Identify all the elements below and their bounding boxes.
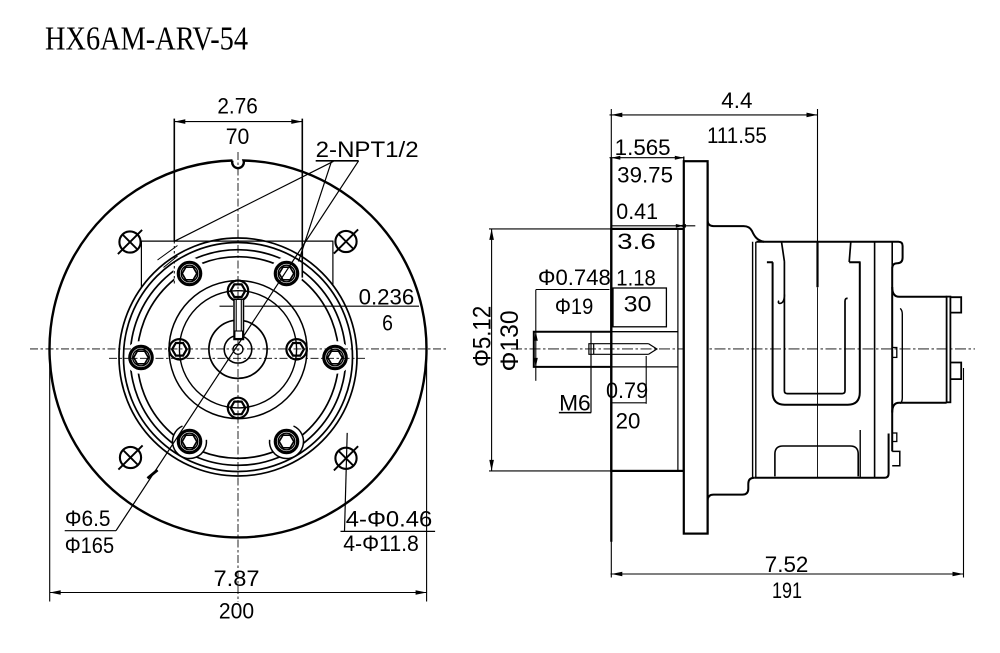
rear cap plate [947, 297, 951, 403]
svg-text:6: 6 [382, 310, 393, 335]
neck top edge [708, 164, 764, 242]
shaft phi19 [534, 332, 612, 367]
chamber left hook [778, 295, 784, 304]
M6 underline [559, 412, 591, 414]
svg-text:0.41: 0.41 [616, 199, 658, 224]
outer flange circle D200 with top notch [49, 161, 426, 538]
svg-text:Φ19: Φ19 [555, 294, 593, 319]
svg-text:200: 200 [219, 599, 254, 624]
band circle inner [137, 257, 339, 459]
shaft bore lines [611, 331, 678, 333]
inner flange double ring outer [119, 238, 357, 476]
NPT label underline [316, 160, 359, 162]
hex bolt B2 [275, 262, 297, 284]
neck bottom edge [708, 478, 755, 534]
shallow leader dashes [158, 246, 178, 261]
svg-text:4-Φ11.8: 4-Φ11.8 [343, 531, 419, 556]
keyway slot outer [234, 299, 244, 339]
bolt lobe 2 [270, 257, 303, 290]
svg-text:39.75: 39.75 [617, 163, 673, 188]
svg-text:0.236: 0.236 [359, 285, 415, 310]
dim 2.76/70 line [174, 121, 302, 123]
port plug P2 [286, 339, 306, 359]
mid body bottom edge [754, 434, 888, 478]
svg-text:HX6AM-ARV-54: HX6AM-ARV-54 [45, 20, 248, 57]
inner flange double ring inner [124, 243, 353, 472]
cone bottom edge [892, 403, 946, 413]
left view horizontal center line [30, 348, 447, 350]
hex bolt B3 [178, 262, 200, 284]
phi19 dim line [535, 290, 537, 381]
svg-text:2-NPT1/2: 2-NPT1/2 [316, 137, 419, 162]
keyway key [235, 331, 243, 339]
dim 7.52 ext right [963, 368, 965, 578]
chamber lean line right [849, 242, 851, 262]
svg-text:M6: M6 [559, 390, 591, 415]
svg-text:Φ5.12: Φ5.12 [468, 306, 496, 367]
svg-text:30: 30 [624, 291, 652, 316]
bolt lobe 1 [319, 341, 352, 374]
svg-text:70: 70 [226, 124, 250, 149]
phi130 top ext [489, 228, 611, 230]
band circle outer [130, 250, 346, 466]
svg-text:20: 20 [616, 409, 641, 434]
svg-text:191: 191 [772, 578, 802, 603]
port plug P3 [228, 398, 248, 418]
body square outline [141, 241, 333, 287]
chamber outer wall [767, 262, 861, 404]
phi5.12 phi130 dim line [491, 229, 493, 471]
M6 leader [590, 332, 592, 413]
small-hex bolt circle [179, 291, 296, 408]
svg-text:3.6: 3.6 [617, 229, 656, 254]
mounting hole X2 [334, 229, 358, 253]
hex bolt B1 [324, 346, 346, 368]
hex bolt B4 [130, 346, 152, 368]
dim 2.76/70 extension line right [301, 119, 303, 278]
phi0.748/phi19 bar [536, 289, 610, 291]
center hole [233, 344, 243, 354]
0.79/20 bar [611, 402, 646, 404]
chamber bore inner wall [784, 262, 847, 394]
hub circle [209, 320, 267, 378]
phi6.5/phi165 fraction bar [65, 530, 116, 532]
flange disk phi200 [684, 161, 708, 533]
mid body left joint lines [752, 242, 754, 478]
hex bolt B5 [178, 430, 200, 452]
keyway width dim line 0.236/6 [220, 305, 234, 307]
end section inner lines [859, 430, 861, 477]
dim 7.87/200 ext right [426, 352, 428, 602]
rear lower slot [892, 433, 897, 442]
svg-text:111.55: 111.55 [707, 123, 767, 148]
right view center line [511, 348, 975, 350]
dim 1.565/39.75 bar [610, 157, 684, 159]
phi130 bottom ext [489, 470, 611, 472]
svg-text:4.4: 4.4 [721, 88, 752, 113]
bolt lobe 6 [270, 425, 303, 458]
rear hub center slot [892, 348, 897, 358]
svg-text:Φ0.748: Φ0.748 [538, 265, 611, 290]
cone base edge [900, 308, 902, 403]
rear tab lower [950, 363, 961, 380]
keyway slot inner lines [236, 299, 241, 331]
phi165 tick [148, 470, 158, 478]
shaft circle [224, 336, 252, 364]
svg-text:4-Φ0.46: 4-Φ0.46 [346, 506, 432, 531]
mid body top edge [756, 242, 902, 452]
dim 4.4/111.55 line [610, 114, 818, 116]
leader to hole X4 [345, 433, 348, 532]
body rear joint line [891, 242, 893, 268]
box dim 30 [613, 288, 666, 327]
leader to bolt circle (phi165) [116, 161, 359, 531]
dim 2.76/70 extension line left [173, 119, 175, 241]
svg-text:2.76: 2.76 [217, 94, 257, 119]
svg-text:7.87: 7.87 [214, 566, 260, 591]
svg-text:1.565: 1.565 [615, 135, 671, 160]
svg-text:7.52: 7.52 [765, 552, 809, 577]
chamber lean line left [782, 242, 785, 262]
bolt-row center line [109, 357, 367, 359]
svg-text:0.79: 0.79 [606, 378, 648, 403]
mounting hole X4 [334, 446, 358, 470]
left view vertical center line [237, 152, 239, 602]
body section line [817, 109, 819, 242]
dim 7.87/200 ext left [49, 352, 51, 602]
NPT leader shallow [174, 161, 333, 241]
NPT leader steep [299, 161, 332, 261]
port plug P4 [169, 339, 189, 359]
bolt lobe 4 [125, 341, 158, 374]
cone top edge [892, 287, 946, 297]
flange boss phi130 outline [611, 229, 684, 471]
hex bolt B6 [275, 430, 297, 452]
bore line [677, 229, 679, 471]
0.79/20 ext right [645, 356, 647, 404]
svg-text:Φ6.5: Φ6.5 [65, 506, 111, 531]
port boss circle [169, 281, 307, 419]
rear tab upper [950, 297, 961, 312]
svg-text:1.18: 1.18 [616, 266, 656, 291]
svg-text:Φ130: Φ130 [496, 310, 524, 371]
keyway slot side view [589, 344, 657, 355]
lug block [892, 451, 900, 465]
mounting hole X3 [118, 445, 142, 469]
exhaust cavity outline [775, 446, 858, 476]
4-phi underline [341, 530, 436, 532]
0.41/3.6 bar [611, 225, 695, 227]
bolt lobe 3 [173, 257, 206, 290]
dim 7.52/191 line [611, 573, 964, 575]
mounting face line [610, 109, 612, 578]
port plug P1 [228, 281, 248, 301]
bolt lobe 5 [173, 425, 206, 458]
mounting hole X1 [118, 230, 142, 254]
svg-text:Φ165: Φ165 [65, 533, 114, 558]
dim 7.87/200 line [50, 592, 427, 594]
